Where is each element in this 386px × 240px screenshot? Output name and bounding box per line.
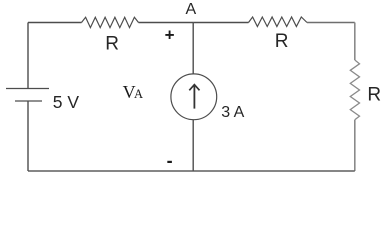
resistor R3: [350, 60, 359, 120]
svg-text:5 V: 5 V: [53, 92, 80, 112]
svg-text:3 A: 3 A: [221, 104, 244, 121]
wire top-left horizontal: [28, 22, 82, 24]
wire left vertical upper: [27, 23, 29, 89]
wire current source to bottom: [192, 120, 194, 171]
resistor R2: [249, 17, 308, 27]
current source I1 circle: [171, 74, 217, 120]
battery V1 long plate: [6, 88, 49, 90]
svg-text:A: A: [186, 1, 197, 18]
current source arrow: [193, 86, 195, 109]
wire node A to R2: [194, 22, 249, 24]
wire bottom: [28, 170, 355, 172]
wire left vertical lower: [27, 101, 29, 171]
wire right vertical lower: [354, 120, 356, 171]
svg-text:R: R: [367, 85, 381, 106]
wire R1 to node A: [139, 22, 194, 24]
battery V1 short plate: [15, 100, 42, 102]
resistor R1: [82, 17, 139, 27]
wire right vertical upper: [354, 23, 356, 61]
wire R2 to top-right corner: [307, 22, 355, 24]
svg-text:A: A: [134, 87, 143, 101]
svg-text:R: R: [105, 34, 119, 55]
svg-text:-: -: [167, 151, 173, 171]
wire node A to current source: [192, 23, 194, 75]
svg-text:R: R: [275, 31, 289, 52]
svg-text:+: +: [165, 26, 175, 45]
